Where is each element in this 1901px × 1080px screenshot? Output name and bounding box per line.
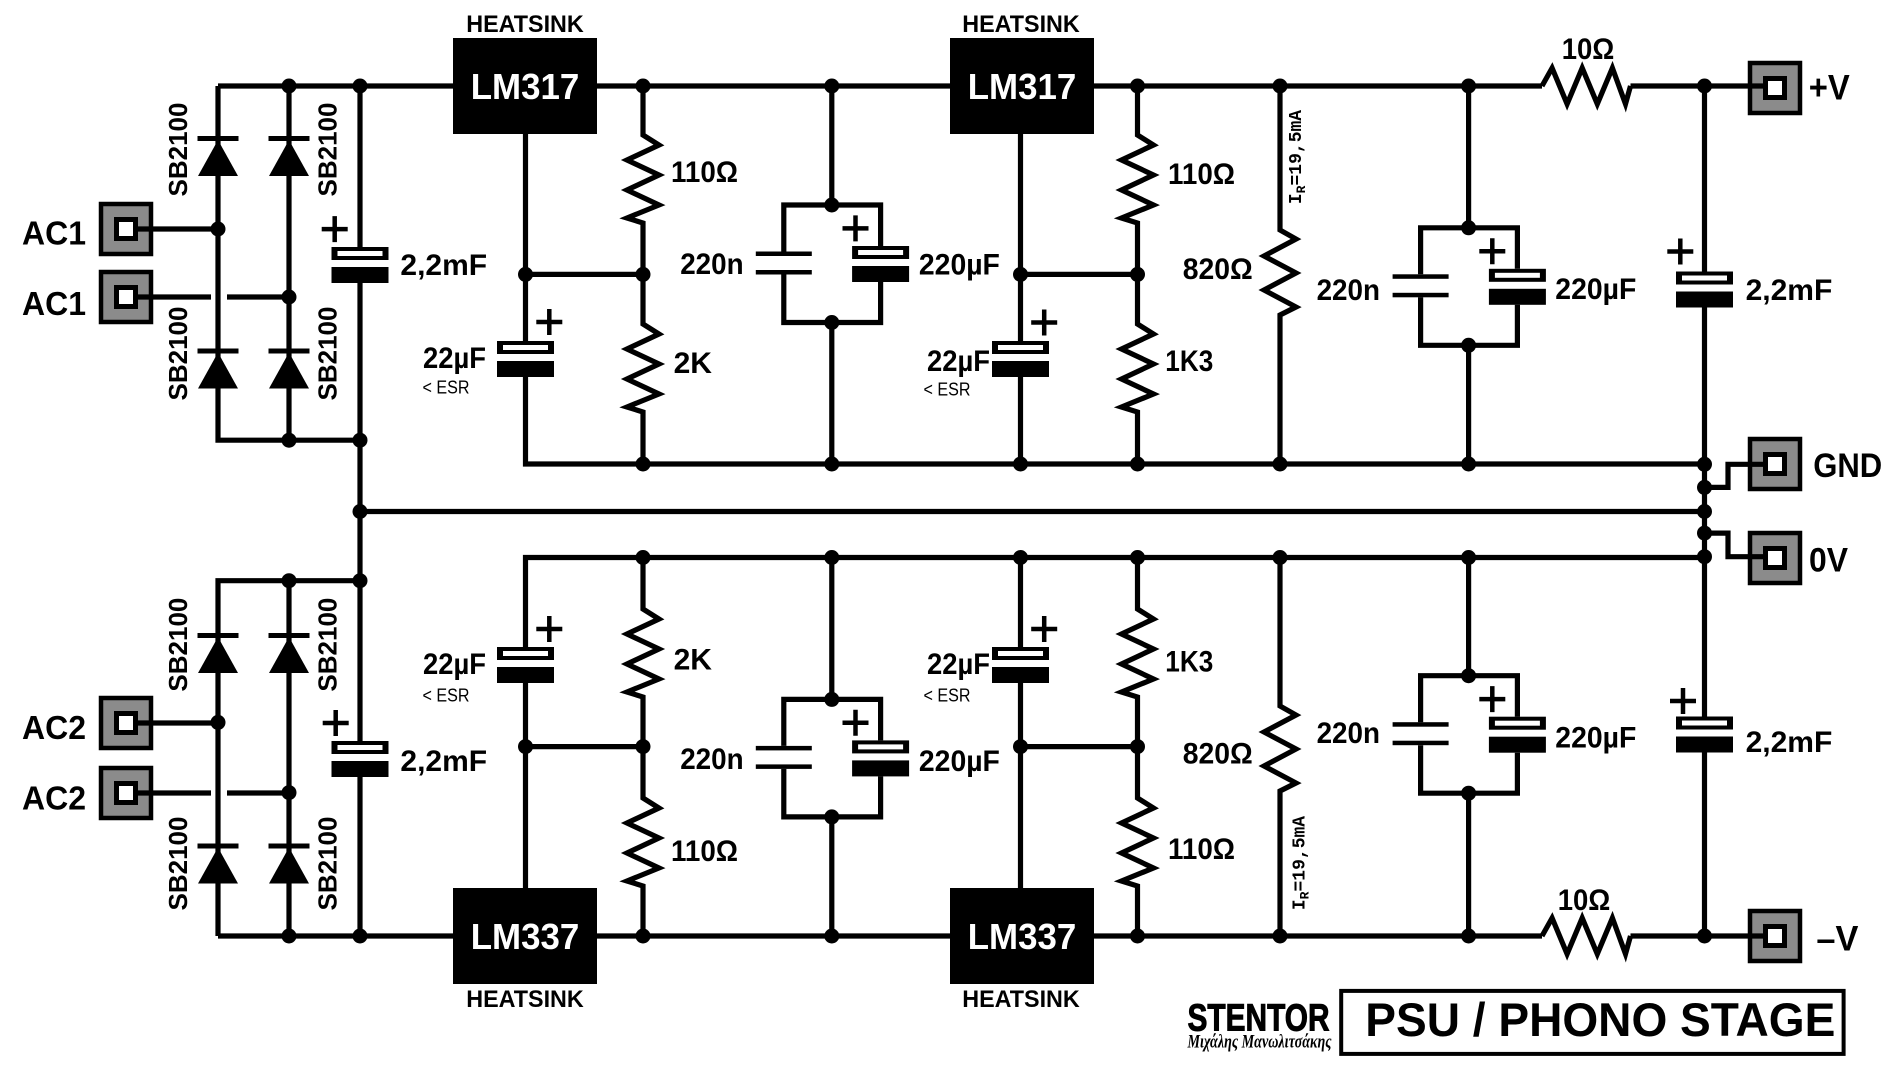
svg-text:220µF: 220µF [919,745,1000,778]
svg-text:220n: 220n [680,248,743,281]
svg-text:1K3: 1K3 [1165,646,1213,679]
svg-text:AC1: AC1 [22,214,86,251]
svg-text:10Ω: 10Ω [1558,884,1611,917]
svg-text:220µF: 220µF [1555,273,1636,306]
svg-text:SB2100: SB2100 [312,817,342,911]
svg-text:SB2100: SB2100 [163,307,193,401]
svg-text:AC2: AC2 [22,779,86,816]
svg-text:AC1: AC1 [22,285,86,322]
svg-text:PSU / PHONO STAGE: PSU / PHONO STAGE [1365,994,1835,1047]
svg-text:LM337: LM337 [471,916,580,957]
svg-text:SB2100: SB2100 [312,103,342,197]
svg-text:0V: 0V [1809,541,1848,579]
svg-text:LM337: LM337 [968,916,1077,957]
svg-text:110Ω: 110Ω [671,835,738,868]
svg-text:GND: GND [1813,447,1882,485]
svg-text:2,2mF: 2,2mF [400,249,487,282]
svg-text:820Ω: 820Ω [1183,737,1253,770]
svg-text:2K: 2K [674,643,713,676]
svg-text:HEATSINK: HEATSINK [466,11,584,38]
svg-text:–V: –V [1816,920,1859,959]
svg-text:2,2mF: 2,2mF [1746,274,1833,307]
svg-text:220µF: 220µF [1555,721,1636,754]
svg-text:HEATSINK: HEATSINK [962,986,1080,1013]
svg-text:< ESR: < ESR [924,685,971,705]
svg-text:Μιχάλης Μανωλιτσάκης: Μιχάλης Μανωλιτσάκης [1187,1033,1332,1053]
svg-text:820Ω: 820Ω [1183,253,1253,286]
svg-text:220µF: 220µF [919,249,1000,282]
svg-text:110Ω: 110Ω [671,156,738,189]
svg-text:AC2: AC2 [22,709,86,746]
svg-text:110Ω: 110Ω [1168,158,1235,191]
svg-text:SB2100: SB2100 [163,598,193,692]
svg-text:10Ω: 10Ω [1562,33,1615,66]
svg-text:< ESR: < ESR [423,378,470,398]
svg-text:2K: 2K [674,347,713,380]
svg-text:22µF: 22µF [927,345,990,378]
svg-text:< ESR: < ESR [924,379,971,399]
svg-text:SB2100: SB2100 [312,598,342,692]
svg-text:220n: 220n [1317,717,1380,750]
svg-text:HEATSINK: HEATSINK [962,11,1080,38]
svg-text:22µF: 22µF [423,648,486,681]
svg-text:SB2100: SB2100 [163,103,193,197]
svg-text:HEATSINK: HEATSINK [466,986,584,1013]
svg-text:SB2100: SB2100 [312,307,342,401]
svg-text:220n: 220n [1317,274,1380,307]
svg-text:LM317: LM317 [471,66,580,107]
svg-text:< ESR: < ESR [423,685,470,705]
svg-text:2,2mF: 2,2mF [1746,726,1833,759]
svg-text:2,2mF: 2,2mF [400,745,487,778]
svg-text:22µF: 22µF [423,342,486,375]
svg-text:SB2100: SB2100 [163,817,193,911]
svg-text:220n: 220n [680,743,743,776]
svg-text:22µF: 22µF [927,648,990,681]
svg-text:+V: +V [1809,69,1851,108]
svg-text:110Ω: 110Ω [1168,833,1235,866]
svg-text:1K3: 1K3 [1165,345,1213,378]
svg-text:LM317: LM317 [968,66,1077,107]
